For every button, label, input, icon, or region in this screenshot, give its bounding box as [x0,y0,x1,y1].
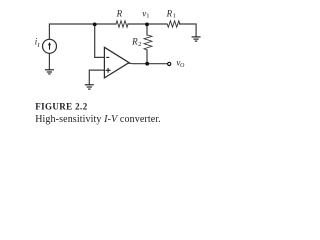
svg-text:O: O [180,63,185,69]
svg-text:1: 1 [146,13,149,20]
svg-text:2: 2 [138,41,141,48]
svg-text:R: R [116,8,123,18]
svg-text:1: 1 [173,13,176,20]
svg-text:FIGURE 2.2: FIGURE 2.2 [35,102,88,112]
svg-text:R: R [131,36,138,46]
svg-text:R: R [166,8,173,18]
svg-text:I: I [36,42,40,49]
svg-text:High-sensitivity I-V converter: High-sensitivity I-V converter. [35,114,161,125]
